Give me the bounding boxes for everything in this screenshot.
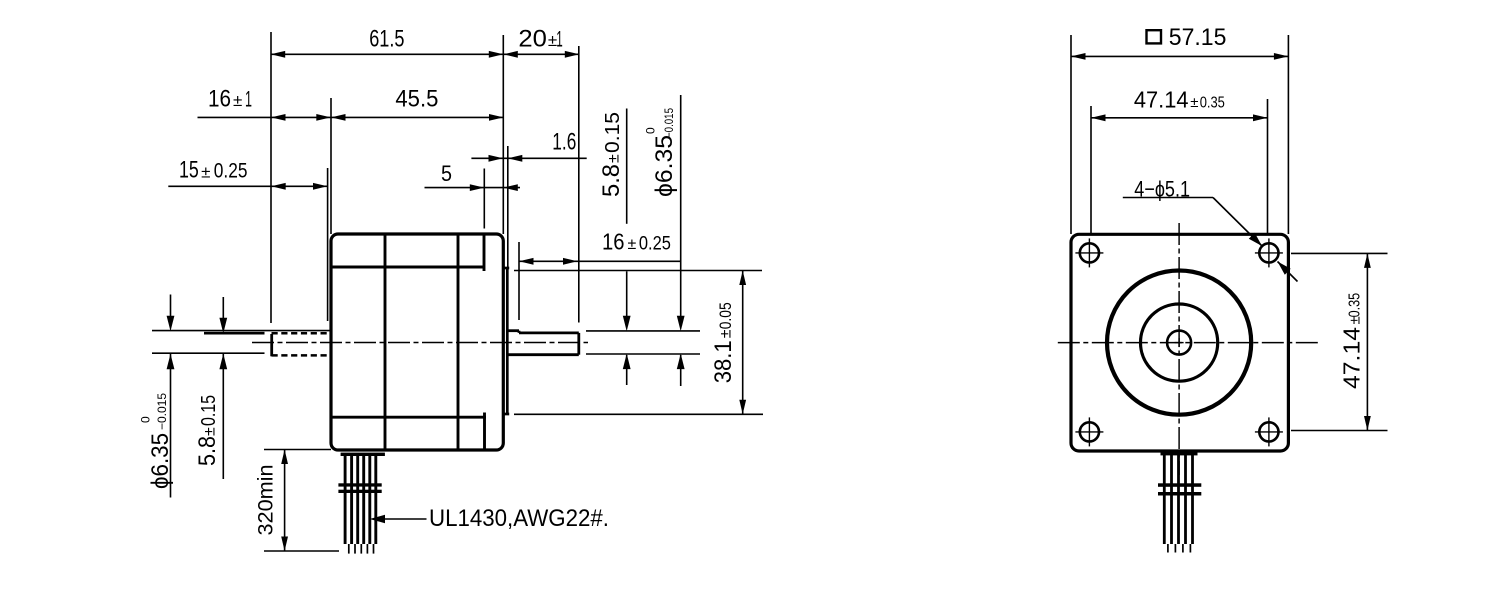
leader line phi6.35 dim upper (x=680.7) [680,95,682,317]
svg-text:15: 15 [179,157,199,184]
svg-text:−0.015: −0.015 [155,393,169,430]
body inner horizontal line top (y=267) [331,266,485,269]
dimension text 320min (rotated) [255,465,278,536]
svg-text:1.6: 1.6 [552,129,576,156]
arrowhead 47.14 right [1253,114,1268,121]
arrowhead 5.8 left up [219,354,227,370]
arrowhead 61.5 right [489,51,504,58]
leader line 4-phi5.1 horizontal [1123,197,1213,199]
extension line rear flat level [204,332,265,335]
leader line 5.8 dim lower [626,355,628,385]
leader line 5.8 dim upper (x=626.7) [626,109,628,224]
svg-text:ϕ6.35: ϕ6.35 [147,433,174,489]
mounting hole top-right phi5.1 [1259,243,1278,262]
front shaft flat step [518,331,521,333]
svg-text:45.5: 45.5 [395,86,438,113]
arrowhead phi6.35 down [677,316,685,332]
arrowhead 1.6 right (outside) [508,155,523,162]
extension line flange left (x=1071) [1070,35,1072,234]
arrowhead 20±1 left [503,51,518,58]
dimension line 47.14 (y=117.8) [1091,117,1268,119]
label phi6.35 0/-0.015 (rotated, left) [138,393,174,489]
svg-text:0.35: 0.35 [1200,94,1225,111]
arrowhead 45.5 right [489,114,504,121]
arrowhead 320min top [281,450,288,465]
leader line 5.8 left upper (x=223.3) [222,297,224,319]
extension line shaft top right [586,330,700,332]
label 5.8±0.15 (rotated, left) [194,395,221,466]
cable tie band 1 (left view) [338,483,381,486]
arrowhead phi6.35 left down [167,316,175,332]
extension line x=327.5 (15 dim) [327,168,329,321]
svg-text:61.5: 61.5 [369,26,404,53]
svg-text:5: 5 [441,161,452,186]
arrowhead 16±0.25 left [519,258,534,265]
svg-text:57.15: 57.15 [1169,24,1227,51]
arrowhead 5.8 left down [219,318,227,334]
arrowhead 47.14 right bottom [1364,416,1371,431]
svg-text:0.25: 0.25 [214,160,248,183]
extension line wire bottom (y=551) [264,550,339,552]
leader line UL1430 [381,518,427,520]
arrowhead 4-phi5.1 at hole (down-right) [1249,233,1262,246]
leader tail beyond hole [1278,262,1298,282]
svg-text:0.15: 0.15 [602,112,624,153]
pilot boss bottom edge [503,413,509,416]
extension line rear shaft end (x=271) [270,32,272,323]
svg-text:0.05: 0.05 [716,302,735,329]
leader line phi6.35 dim lower [680,355,682,386]
stripped wire ends (front view) [1167,544,1169,553]
dimension line 38.1 (x=742.7) [742,271,744,415]
svg-text:320min: 320min [255,465,278,536]
extension line boss face (x=507.8) [507,146,509,267]
dimension line 45.5 (y=117.4) [331,116,504,118]
arrowhead 16±1 right [316,114,331,121]
svg-text:0.15: 0.15 [198,395,220,426]
vertical centerline (front view) [1178,223,1180,475]
svg-text:±: ± [201,162,210,181]
arrowhead phi6.35 left up [167,354,175,370]
pilot boss right face [506,268,509,414]
svg-text:20: 20 [518,26,547,53]
bearing boss circle [1141,304,1218,381]
arrowhead 5.8 down [623,316,631,332]
stripped wire ends (left view) [348,544,350,554]
lead wire collar (front view) [1161,452,1198,455]
svg-text:0.35: 0.35 [1347,293,1364,318]
extension line body left face (x=331) [330,98,332,234]
lead wires (front view, 5 lines) [1163,455,1166,544]
svg-text:47.14: 47.14 [1339,327,1365,389]
square symbol [1147,30,1162,43]
shaft circle phi6.35 [1167,331,1191,355]
arrowhead 57.15 left [1071,53,1086,60]
center mark [1175,342,1184,344]
dimension line 1.6 (y=158.3) [471,157,586,159]
shaft centerline (dash-dot) [252,342,588,344]
horizontal centerline (front view) [1058,342,1319,344]
extension line flange right (x=1288.4) [1287,35,1289,234]
motor body outline (side view) [331,234,503,450]
svg-text:5.8: 5.8 [194,436,221,466]
svg-text:0.25: 0.25 [639,233,671,254]
arrowhead 45.5 left [331,114,346,121]
svg-text:±: ± [233,91,242,110]
arrowhead 16±0.25 right [563,258,578,265]
pilot boss circle phi38.1 [1107,271,1251,415]
dimension line 47.14 right (x=1367.4) [1366,253,1368,430]
mounting hole bottom-right phi5.1 [1259,422,1278,441]
body inner horizontal line bottom (y=417.2) [331,416,486,419]
front flange inner edge bottom segment (x=484.5) [483,413,486,451]
extension line rear shaft bottom (thin) [152,352,265,354]
cable tie band 1 (front view) [1158,483,1201,487]
svg-text:±: ± [718,329,735,338]
arrowhead at hole far side (up-left) [1278,262,1291,275]
front shaft bottom edge [507,353,579,356]
extension line rear shaft top (thin) [152,330,331,332]
extension line front shaft end (x=578.8) [578,46,580,323]
front shaft end face [577,333,580,355]
dimension line 15±0.25 (y=186.3) [168,185,327,187]
svg-text:UL1430,AWG22#.: UL1430,AWG22#. [429,505,609,532]
svg-text:47.14: 47.14 [1134,86,1189,112]
rear shaft top edge (hidden/dashed) [272,332,332,335]
front flange inner edge top segment (x=484) [483,234,486,271]
arrowhead UL1430 [370,515,386,523]
rear shaft bottom edge (hidden/dashed) [272,354,332,357]
extension line wire top (y=449.5) [264,449,331,451]
extension line x=484.3 (5 dim) [483,169,485,229]
extension line top-right hole (y=253.4) [1291,252,1388,254]
dimension line 16±0.25 (y=261.3) [519,260,681,262]
dimension line 16±1 (y=117.4) [198,116,332,118]
arrowhead 5 right (outside) [503,184,518,191]
lead wires (left view, 6 lines) [344,455,347,544]
front shaft top edge (full diameter) [507,329,519,332]
svg-text:1: 1 [245,87,252,112]
svg-text:±: ± [1190,94,1198,111]
svg-text:ϕ6.35: ϕ6.35 [651,135,678,197]
label phi6.35 0/-0.015 (rotated, right) [643,108,678,197]
svg-text:16: 16 [602,228,625,254]
extension line boss bottom (38.1) [514,413,763,415]
rear endcap parting line (vertical, x=458) [457,234,460,450]
arrowhead 47.14 left [1091,114,1106,121]
arrowhead 47.14 right top [1364,253,1371,268]
front endcap parting line (vertical, x=385) [384,234,387,450]
svg-text:5.8: 5.8 [598,164,625,197]
lead wire collar (left view) [341,453,385,456]
dimension line 57.15 (y=56.4) [1071,55,1288,57]
dimension line 320min (x=284.6) [284,450,286,552]
leader line 4-phi5.1 diagonal [1213,198,1262,247]
rear shaft end face [270,334,273,356]
leader line phi6.35 left lower [170,354,172,498]
extension line boss top (38.1) [514,270,762,272]
arrowhead 1.6 left (outside) [489,155,504,162]
dimension line 61.5 / 20±1 (y=54.3) [271,53,580,55]
mounting hole top-left phi5.1 [1080,243,1099,262]
dimension text 38.1±0.05 (rotated) [710,302,737,383]
svg-text:0: 0 [138,416,152,423]
arrowhead 5 left (outside) [470,184,485,191]
svg-text:38.1: 38.1 [710,340,737,383]
svg-text:16: 16 [208,86,231,113]
mounting hole bottom-left phi5.1 [1080,422,1099,441]
svg-text:−0.015: −0.015 [662,108,676,138]
arrowhead phi6.35 up [677,354,685,370]
leader line 5.8 left lower [222,354,224,479]
extension line hole center left (x=1091) [1090,106,1092,234]
leader line phi6.35 left upper (x=170.5) [170,295,172,318]
flange outline (front view) [1071,234,1288,451]
arrowhead 5.8 up [623,354,631,370]
arrowhead 57.15 right [1274,53,1289,60]
svg-text:±: ± [628,236,637,253]
svg-text:0: 0 [643,127,657,134]
cable tie band 2 (front view) [1158,492,1201,496]
arrowhead 15±0.25 left [271,183,286,190]
arrowhead 16±1 left [271,114,286,121]
extension line body right face (x=503.3) [502,35,504,234]
extension line hole center right (x=1267.5) [1267,99,1269,234]
arrowhead 38.1 bottom [739,400,746,415]
dimension line 5 (y=187.6) [425,187,521,189]
front shaft flat top edge [519,331,579,334]
pilot boss top edge [503,267,509,270]
arrowhead 20±1 right [565,51,580,58]
svg-text:±: ± [202,427,219,436]
cable tie band 2 (left view) [338,490,381,493]
arrowhead 38.1 top [739,271,746,286]
arrowhead 15±0.25 right [313,183,328,190]
label 5.8±0.15 (rotated, right) [598,112,625,197]
extension line bottom-right hole (y=430.5) [1291,430,1388,432]
arrowhead 320min bottom [281,537,288,552]
svg-text:1: 1 [556,27,563,52]
dimension text 47.14±0.35 (rotated right) [1339,293,1365,389]
svg-text:±: ± [606,154,623,163]
extension line shaft bottom right [586,353,700,355]
extension line flat start (x=519) [518,242,520,320]
arrowhead 61.5 left [271,51,286,58]
